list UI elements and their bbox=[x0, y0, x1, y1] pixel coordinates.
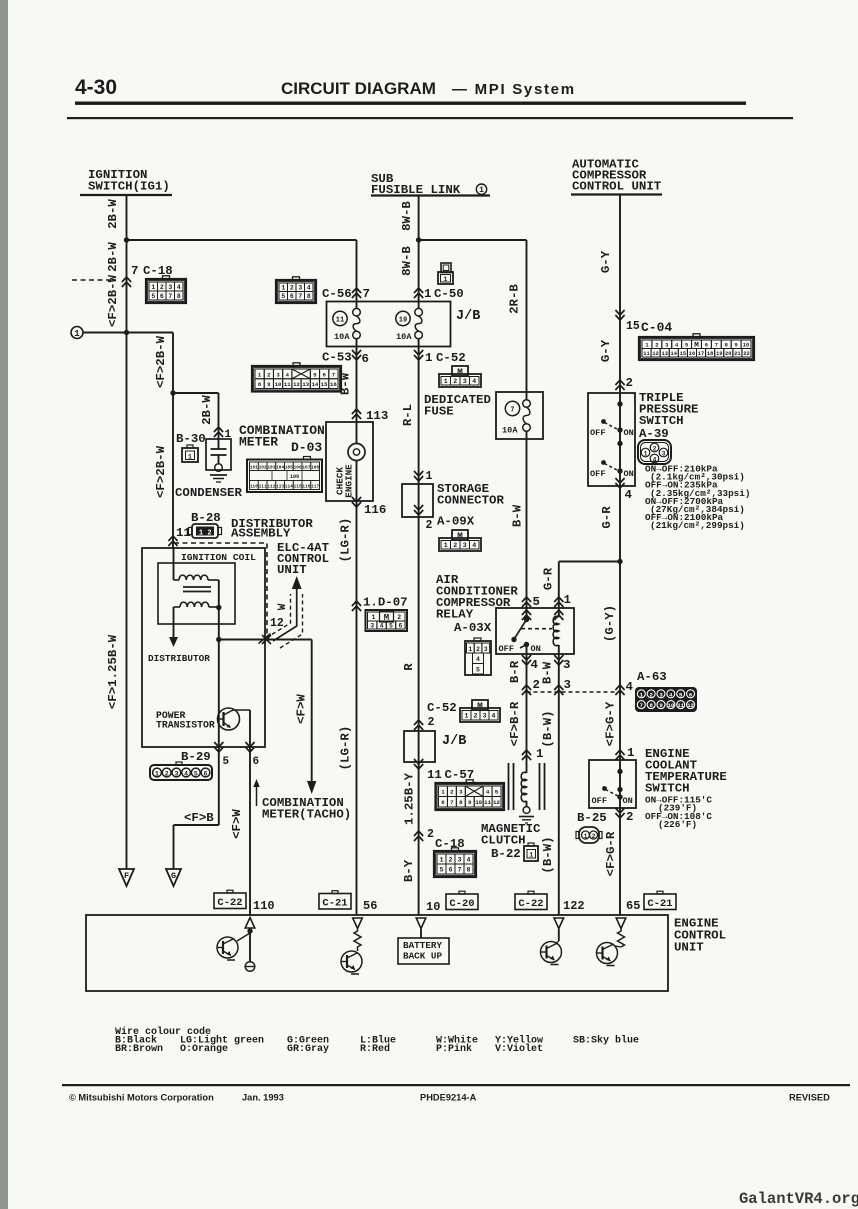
svg-text:12: 12 bbox=[493, 799, 500, 806]
svg-text:1.25B-Y: 1.25B-Y bbox=[403, 772, 417, 825]
svg-text:13: 13 bbox=[661, 351, 667, 357]
svg-text:2: 2 bbox=[207, 530, 211, 538]
svg-text:3: 3 bbox=[564, 678, 571, 692]
svg-text:C-20: C-20 bbox=[449, 898, 474, 910]
svg-text:1: 1 bbox=[627, 746, 634, 760]
svg-text:CLUTCH: CLUTCH bbox=[481, 834, 526, 848]
svg-text:J/B: J/B bbox=[456, 309, 480, 324]
svg-text:101: 101 bbox=[250, 466, 258, 471]
svg-text:V:Violet: V:Violet bbox=[495, 1043, 543, 1055]
svg-text:B-25: B-25 bbox=[577, 811, 607, 825]
svg-text:B-29: B-29 bbox=[181, 750, 211, 764]
svg-text:<F>B: <F>B bbox=[184, 811, 214, 825]
svg-text:56: 56 bbox=[363, 899, 377, 913]
svg-text:11: 11 bbox=[427, 768, 442, 782]
svg-text:2: 2 bbox=[653, 445, 657, 452]
svg-text:BR:Brown: BR:Brown bbox=[115, 1044, 163, 1055]
svg-text:1: 1 bbox=[441, 789, 445, 796]
svg-text:A-03X: A-03X bbox=[454, 621, 492, 635]
svg-text:1: 1 bbox=[372, 614, 376, 621]
svg-text:9: 9 bbox=[735, 343, 738, 349]
svg-text:<F>2B-W: <F>2B-W bbox=[154, 445, 168, 498]
svg-text:UNIT: UNIT bbox=[277, 563, 307, 577]
svg-text:8W-B: 8W-B bbox=[400, 201, 414, 231]
svg-text:7: 7 bbox=[168, 293, 172, 300]
svg-text:G-R: G-R bbox=[542, 567, 556, 590]
svg-text:<F>2B-W: <F>2B-W bbox=[154, 335, 168, 388]
svg-text:1: 1 bbox=[444, 542, 448, 549]
svg-text:C-22: C-22 bbox=[217, 897, 242, 909]
svg-text:B-22: B-22 bbox=[491, 847, 521, 861]
svg-text:C-04: C-04 bbox=[641, 320, 672, 335]
svg-text:2: 2 bbox=[428, 716, 435, 729]
svg-text:C-22: C-22 bbox=[518, 898, 543, 910]
svg-text:ASSEMBLY: ASSEMBLY bbox=[231, 527, 291, 541]
svg-text:4: 4 bbox=[625, 488, 633, 502]
svg-text:4: 4 bbox=[486, 789, 490, 796]
svg-text:110: 110 bbox=[250, 485, 258, 490]
svg-text:SWITCH(IG1): SWITCH(IG1) bbox=[88, 180, 170, 194]
svg-text:— MPI System: — MPI System bbox=[452, 81, 576, 98]
svg-text:4: 4 bbox=[307, 285, 311, 292]
svg-text:OFF: OFF bbox=[592, 796, 607, 806]
svg-text:M: M bbox=[477, 701, 483, 712]
svg-text:ON: ON bbox=[623, 796, 633, 806]
svg-text:1: 1 bbox=[425, 351, 432, 365]
svg-text:7: 7 bbox=[715, 343, 718, 349]
svg-text:B-W: B-W bbox=[541, 661, 555, 684]
svg-text:C-52: C-52 bbox=[427, 701, 457, 715]
svg-text:21: 21 bbox=[734, 351, 740, 357]
svg-text:4: 4 bbox=[184, 770, 188, 777]
svg-text:3: 3 bbox=[665, 343, 668, 349]
svg-text:SWITCH: SWITCH bbox=[645, 782, 690, 796]
svg-text:8: 8 bbox=[307, 293, 311, 300]
svg-text:M: M bbox=[457, 367, 463, 378]
svg-text:R: R bbox=[402, 663, 416, 671]
svg-text:15: 15 bbox=[680, 351, 686, 357]
svg-text:5: 5 bbox=[476, 667, 480, 674]
svg-text:ON: ON bbox=[531, 644, 541, 654]
svg-text:BACK UP: BACK UP bbox=[403, 951, 442, 962]
svg-text:A-39: A-39 bbox=[639, 427, 669, 441]
svg-text:6: 6 bbox=[204, 770, 208, 777]
svg-text:<F>W: <F>W bbox=[295, 694, 309, 724]
svg-text:102: 102 bbox=[259, 466, 267, 471]
svg-text:CONTROL UNIT: CONTROL UNIT bbox=[572, 180, 662, 194]
svg-text:4: 4 bbox=[467, 856, 471, 863]
svg-text:110: 110 bbox=[253, 899, 275, 913]
svg-text:7: 7 bbox=[510, 407, 514, 415]
svg-text:1: 1 bbox=[444, 276, 448, 283]
svg-text:6: 6 bbox=[362, 352, 369, 366]
svg-text:15: 15 bbox=[321, 381, 328, 388]
svg-text:R:Red: R:Red bbox=[360, 1043, 390, 1055]
svg-text:BATTERY: BATTERY bbox=[403, 940, 442, 951]
svg-text:C-21: C-21 bbox=[647, 898, 672, 910]
svg-text:C-18: C-18 bbox=[435, 837, 465, 851]
svg-text:Jan. 1993: Jan. 1993 bbox=[242, 1093, 284, 1103]
svg-text:D-03: D-03 bbox=[291, 440, 322, 455]
svg-text:O:Orange: O:Orange bbox=[180, 1044, 228, 1055]
svg-text:CONDENSER: CONDENSER bbox=[175, 486, 242, 500]
svg-text:5: 5 bbox=[281, 293, 285, 300]
svg-text:(226'F): (226'F) bbox=[658, 819, 697, 830]
svg-text:1: 1 bbox=[151, 284, 155, 291]
svg-text:14: 14 bbox=[671, 351, 678, 357]
svg-text:2: 2 bbox=[449, 856, 453, 863]
svg-text:10A: 10A bbox=[502, 426, 518, 436]
svg-text:3: 3 bbox=[483, 713, 487, 720]
svg-text:11: 11 bbox=[284, 381, 291, 388]
svg-text:11: 11 bbox=[484, 799, 491, 806]
svg-text:16: 16 bbox=[689, 351, 695, 357]
svg-text:3: 3 bbox=[370, 623, 374, 630]
svg-text:<F>G-R: <F>G-R bbox=[604, 831, 618, 876]
svg-text:1: 1 bbox=[479, 186, 484, 195]
svg-text:10: 10 bbox=[743, 343, 749, 349]
svg-text:CIRCUIT DIAGRAM: CIRCUIT DIAGRAM bbox=[281, 79, 436, 98]
svg-text:106: 106 bbox=[294, 466, 302, 471]
svg-text:111: 111 bbox=[259, 485, 267, 490]
svg-text:1: 1 bbox=[584, 833, 588, 840]
svg-text:6: 6 bbox=[253, 756, 260, 768]
svg-text:R-L: R-L bbox=[401, 404, 415, 426]
svg-text:7: 7 bbox=[363, 287, 370, 301]
svg-text:4: 4 bbox=[177, 284, 181, 291]
svg-text:1: 1 bbox=[426, 470, 433, 483]
svg-text:5: 5 bbox=[440, 866, 444, 873]
svg-text:16: 16 bbox=[330, 381, 337, 388]
svg-text:1: 1 bbox=[281, 285, 285, 292]
svg-text:3: 3 bbox=[662, 450, 666, 457]
svg-text:18: 18 bbox=[707, 351, 713, 357]
svg-text:W: W bbox=[277, 603, 289, 610]
svg-text:12: 12 bbox=[652, 351, 658, 357]
svg-text:OFF: OFF bbox=[590, 428, 605, 438]
svg-text:65: 65 bbox=[626, 899, 640, 913]
svg-text:SB:Sky blue: SB:Sky blue bbox=[573, 1035, 639, 1047]
svg-text:2B-W: 2B-W bbox=[106, 199, 120, 229]
svg-text:4: 4 bbox=[653, 456, 657, 463]
svg-text:2: 2 bbox=[426, 519, 433, 532]
svg-text:© Mitsubishi Motors Corporatio: © Mitsubishi Motors Corporation bbox=[69, 1093, 214, 1103]
svg-text:7: 7 bbox=[450, 799, 454, 806]
svg-text:7: 7 bbox=[640, 702, 643, 709]
svg-text:(LG-R): (LG-R) bbox=[339, 518, 353, 563]
svg-text:104: 104 bbox=[276, 466, 284, 471]
svg-text:PHDE9214-A: PHDE9214-A bbox=[420, 1093, 477, 1103]
svg-text:116: 116 bbox=[302, 485, 310, 490]
svg-text:1: 1 bbox=[645, 343, 648, 349]
svg-text:B-Y: B-Y bbox=[402, 859, 416, 882]
svg-text:5: 5 bbox=[151, 293, 155, 300]
svg-text:7: 7 bbox=[298, 293, 302, 300]
svg-text:2: 2 bbox=[165, 770, 169, 777]
svg-text:2: 2 bbox=[626, 810, 633, 824]
svg-text:22: 22 bbox=[743, 351, 749, 357]
svg-text:4: 4 bbox=[626, 680, 634, 694]
svg-text:13: 13 bbox=[302, 381, 309, 388]
svg-text:107: 107 bbox=[302, 466, 310, 471]
svg-text:6: 6 bbox=[160, 293, 164, 300]
svg-text:1: 1 bbox=[444, 378, 448, 385]
svg-text:B-W: B-W bbox=[511, 504, 525, 527]
svg-text:122: 122 bbox=[563, 899, 585, 913]
svg-text:5: 5 bbox=[389, 623, 393, 630]
svg-text:10A: 10A bbox=[334, 332, 350, 342]
svg-text:5: 5 bbox=[495, 789, 499, 796]
svg-text:<F>2B-W: <F>2B-W bbox=[106, 274, 120, 327]
svg-text:12: 12 bbox=[293, 381, 300, 388]
svg-text:TRANSISTOR: TRANSISTOR bbox=[156, 720, 215, 731]
svg-text:C-52: C-52 bbox=[436, 351, 466, 365]
svg-text:1: 1 bbox=[199, 530, 203, 538]
svg-text:IGNITION COIL: IGNITION COIL bbox=[181, 552, 256, 563]
svg-text:6: 6 bbox=[441, 799, 445, 806]
svg-text:5: 5 bbox=[685, 343, 688, 349]
svg-text:3: 3 bbox=[463, 378, 467, 385]
svg-text:11: 11 bbox=[336, 317, 344, 325]
svg-text:7: 7 bbox=[332, 371, 335, 378]
svg-text:OFF: OFF bbox=[499, 644, 514, 654]
svg-text:116: 116 bbox=[364, 503, 386, 517]
svg-text:4: 4 bbox=[380, 623, 384, 630]
svg-text:6: 6 bbox=[399, 623, 403, 630]
svg-text:109: 109 bbox=[290, 474, 299, 480]
svg-text:4: 4 bbox=[492, 713, 496, 720]
svg-text:METER(TACHO): METER(TACHO) bbox=[262, 808, 351, 822]
svg-text:3: 3 bbox=[484, 646, 488, 653]
svg-text:3: 3 bbox=[458, 856, 462, 863]
svg-text:2B-W: 2B-W bbox=[106, 242, 120, 272]
svg-text:RELAY: RELAY bbox=[436, 608, 474, 622]
svg-text:103: 103 bbox=[267, 466, 275, 471]
svg-text:5: 5 bbox=[194, 770, 198, 777]
svg-text:12: 12 bbox=[270, 617, 284, 630]
svg-text:<F>W: <F>W bbox=[230, 809, 244, 839]
svg-text:1: 1 bbox=[188, 454, 192, 461]
svg-text:B-28: B-28 bbox=[191, 511, 221, 525]
svg-text:7: 7 bbox=[131, 264, 138, 278]
svg-text:(G-Y): (G-Y) bbox=[603, 605, 617, 642]
svg-text:GR:Gray: GR:Gray bbox=[287, 1044, 329, 1055]
svg-text:113: 113 bbox=[276, 485, 284, 490]
svg-text:4: 4 bbox=[531, 658, 539, 672]
svg-text:5: 5 bbox=[223, 756, 230, 768]
svg-text:C-56: C-56 bbox=[322, 287, 352, 301]
svg-text:(B-W): (B-W) bbox=[541, 710, 555, 747]
svg-text:A-63: A-63 bbox=[637, 670, 667, 684]
svg-text:FUSE: FUSE bbox=[424, 405, 454, 419]
svg-text:C-53: C-53 bbox=[322, 351, 352, 365]
svg-text:14: 14 bbox=[312, 381, 319, 388]
svg-text:1: 1 bbox=[155, 770, 159, 777]
svg-text:2: 2 bbox=[450, 789, 454, 796]
svg-text:10: 10 bbox=[426, 900, 440, 914]
svg-text:<F>1.25B-W: <F>1.25B-W bbox=[106, 634, 120, 709]
svg-text:1: 1 bbox=[440, 856, 444, 863]
svg-text:20: 20 bbox=[725, 351, 731, 357]
svg-text:10A: 10A bbox=[396, 332, 412, 342]
svg-text:(21kg/cm²,299psi): (21kg/cm²,299psi) bbox=[650, 520, 745, 531]
svg-text:8: 8 bbox=[725, 343, 728, 349]
svg-text:A-09X: A-09X bbox=[437, 515, 475, 529]
svg-text:108: 108 bbox=[311, 466, 319, 471]
svg-text:2: 2 bbox=[427, 828, 434, 841]
svg-text:DISTRIBUTOR: DISTRIBUTOR bbox=[148, 653, 210, 664]
svg-text:8: 8 bbox=[459, 799, 463, 806]
svg-text:3: 3 bbox=[563, 658, 570, 672]
svg-text:1: 1 bbox=[536, 747, 543, 761]
svg-text:6: 6 bbox=[290, 293, 294, 300]
svg-text:2: 2 bbox=[474, 713, 478, 720]
svg-text:3: 3 bbox=[168, 284, 172, 291]
svg-text:1: 1 bbox=[529, 851, 533, 858]
svg-text:114: 114 bbox=[285, 485, 293, 490]
svg-text:CONNECTOR: CONNECTOR bbox=[437, 494, 504, 508]
svg-text:3: 3 bbox=[463, 542, 467, 549]
svg-text:1: 1 bbox=[564, 593, 571, 607]
svg-text:1: 1 bbox=[424, 287, 431, 301]
svg-text:4: 4 bbox=[472, 378, 476, 385]
svg-text:15: 15 bbox=[626, 320, 640, 333]
svg-text:J/B: J/B bbox=[442, 734, 466, 749]
svg-text:UNIT: UNIT bbox=[674, 941, 704, 955]
svg-text:11: 11 bbox=[643, 351, 649, 357]
svg-text:4: 4 bbox=[472, 542, 476, 549]
svg-text:6: 6 bbox=[449, 866, 453, 873]
svg-text:<F>B-R: <F>B-R bbox=[508, 701, 522, 746]
svg-text:ON: ON bbox=[624, 469, 634, 479]
svg-text:REVISED: REVISED bbox=[789, 1093, 830, 1103]
svg-text:C-50: C-50 bbox=[434, 287, 464, 301]
svg-text:12: 12 bbox=[687, 702, 694, 709]
svg-text:2: 2 bbox=[626, 376, 633, 390]
svg-text:2: 2 bbox=[453, 378, 457, 385]
svg-text:19: 19 bbox=[399, 317, 407, 325]
svg-text:5: 5 bbox=[533, 595, 540, 609]
svg-text:3: 3 bbox=[174, 770, 178, 777]
svg-text:B-30: B-30 bbox=[176, 432, 206, 446]
svg-text:10: 10 bbox=[667, 702, 674, 709]
svg-text:ON: ON bbox=[624, 428, 634, 438]
svg-text:METER: METER bbox=[239, 435, 278, 450]
svg-text:P:Pink: P:Pink bbox=[436, 1043, 472, 1055]
svg-text:2: 2 bbox=[397, 614, 401, 621]
svg-text:F: F bbox=[124, 871, 129, 881]
svg-text:B-R: B-R bbox=[508, 660, 522, 683]
svg-text:<F>G-Y: <F>G-Y bbox=[604, 701, 618, 746]
svg-text:19: 19 bbox=[716, 351, 722, 357]
svg-text:2: 2 bbox=[476, 646, 480, 653]
svg-text:1: 1 bbox=[74, 329, 80, 339]
svg-text:112: 112 bbox=[267, 485, 275, 490]
svg-text:G: G bbox=[171, 871, 176, 881]
svg-text:1: 1 bbox=[468, 646, 472, 653]
svg-text:SWITCH: SWITCH bbox=[639, 414, 684, 428]
svg-text:2: 2 bbox=[290, 285, 294, 292]
svg-text:8W-B: 8W-B bbox=[400, 246, 414, 276]
svg-text:G-R: G-R bbox=[600, 506, 614, 529]
svg-text:(LG-R): (LG-R) bbox=[339, 726, 353, 771]
svg-text:1: 1 bbox=[465, 713, 469, 720]
svg-text:B-W: B-W bbox=[339, 372, 353, 395]
svg-text:OFF: OFF bbox=[590, 469, 605, 479]
svg-text:2: 2 bbox=[160, 284, 164, 291]
svg-text:(B-W): (B-W) bbox=[541, 836, 555, 873]
svg-text:2: 2 bbox=[453, 542, 457, 549]
svg-text:7: 7 bbox=[458, 866, 462, 873]
svg-text:2R-B: 2R-B bbox=[508, 284, 522, 314]
svg-text:G-Y: G-Y bbox=[599, 339, 613, 362]
svg-text:9: 9 bbox=[468, 799, 472, 806]
svg-text:2: 2 bbox=[592, 833, 596, 840]
svg-text:1.D-07: 1.D-07 bbox=[363, 596, 408, 610]
svg-text:113: 113 bbox=[366, 409, 388, 423]
svg-text:1: 1 bbox=[644, 450, 648, 457]
svg-text:M: M bbox=[457, 531, 463, 542]
svg-text:6: 6 bbox=[705, 343, 708, 349]
svg-text:115: 115 bbox=[294, 485, 302, 490]
svg-text:2: 2 bbox=[655, 343, 658, 349]
svg-text:2B-W: 2B-W bbox=[200, 395, 214, 425]
svg-text:2: 2 bbox=[533, 678, 540, 692]
svg-text:GalantVR4.org: GalantVR4.org bbox=[739, 1190, 858, 1208]
svg-text:11: 11 bbox=[677, 702, 684, 709]
svg-text:10: 10 bbox=[275, 381, 282, 388]
svg-text:G-Y: G-Y bbox=[599, 250, 613, 273]
svg-text:117: 117 bbox=[311, 485, 319, 490]
svg-text:C-21: C-21 bbox=[322, 897, 347, 909]
svg-text:4: 4 bbox=[476, 656, 480, 663]
svg-text:10: 10 bbox=[475, 799, 482, 806]
svg-text:17: 17 bbox=[698, 351, 704, 357]
svg-text:3: 3 bbox=[298, 285, 302, 292]
svg-text:ENGINE: ENGINE bbox=[344, 464, 355, 498]
svg-text:105: 105 bbox=[285, 466, 293, 471]
svg-text:8: 8 bbox=[467, 866, 471, 873]
svg-text:3: 3 bbox=[459, 789, 463, 796]
svg-text:8: 8 bbox=[177, 293, 181, 300]
svg-text:4-30: 4-30 bbox=[75, 76, 117, 99]
